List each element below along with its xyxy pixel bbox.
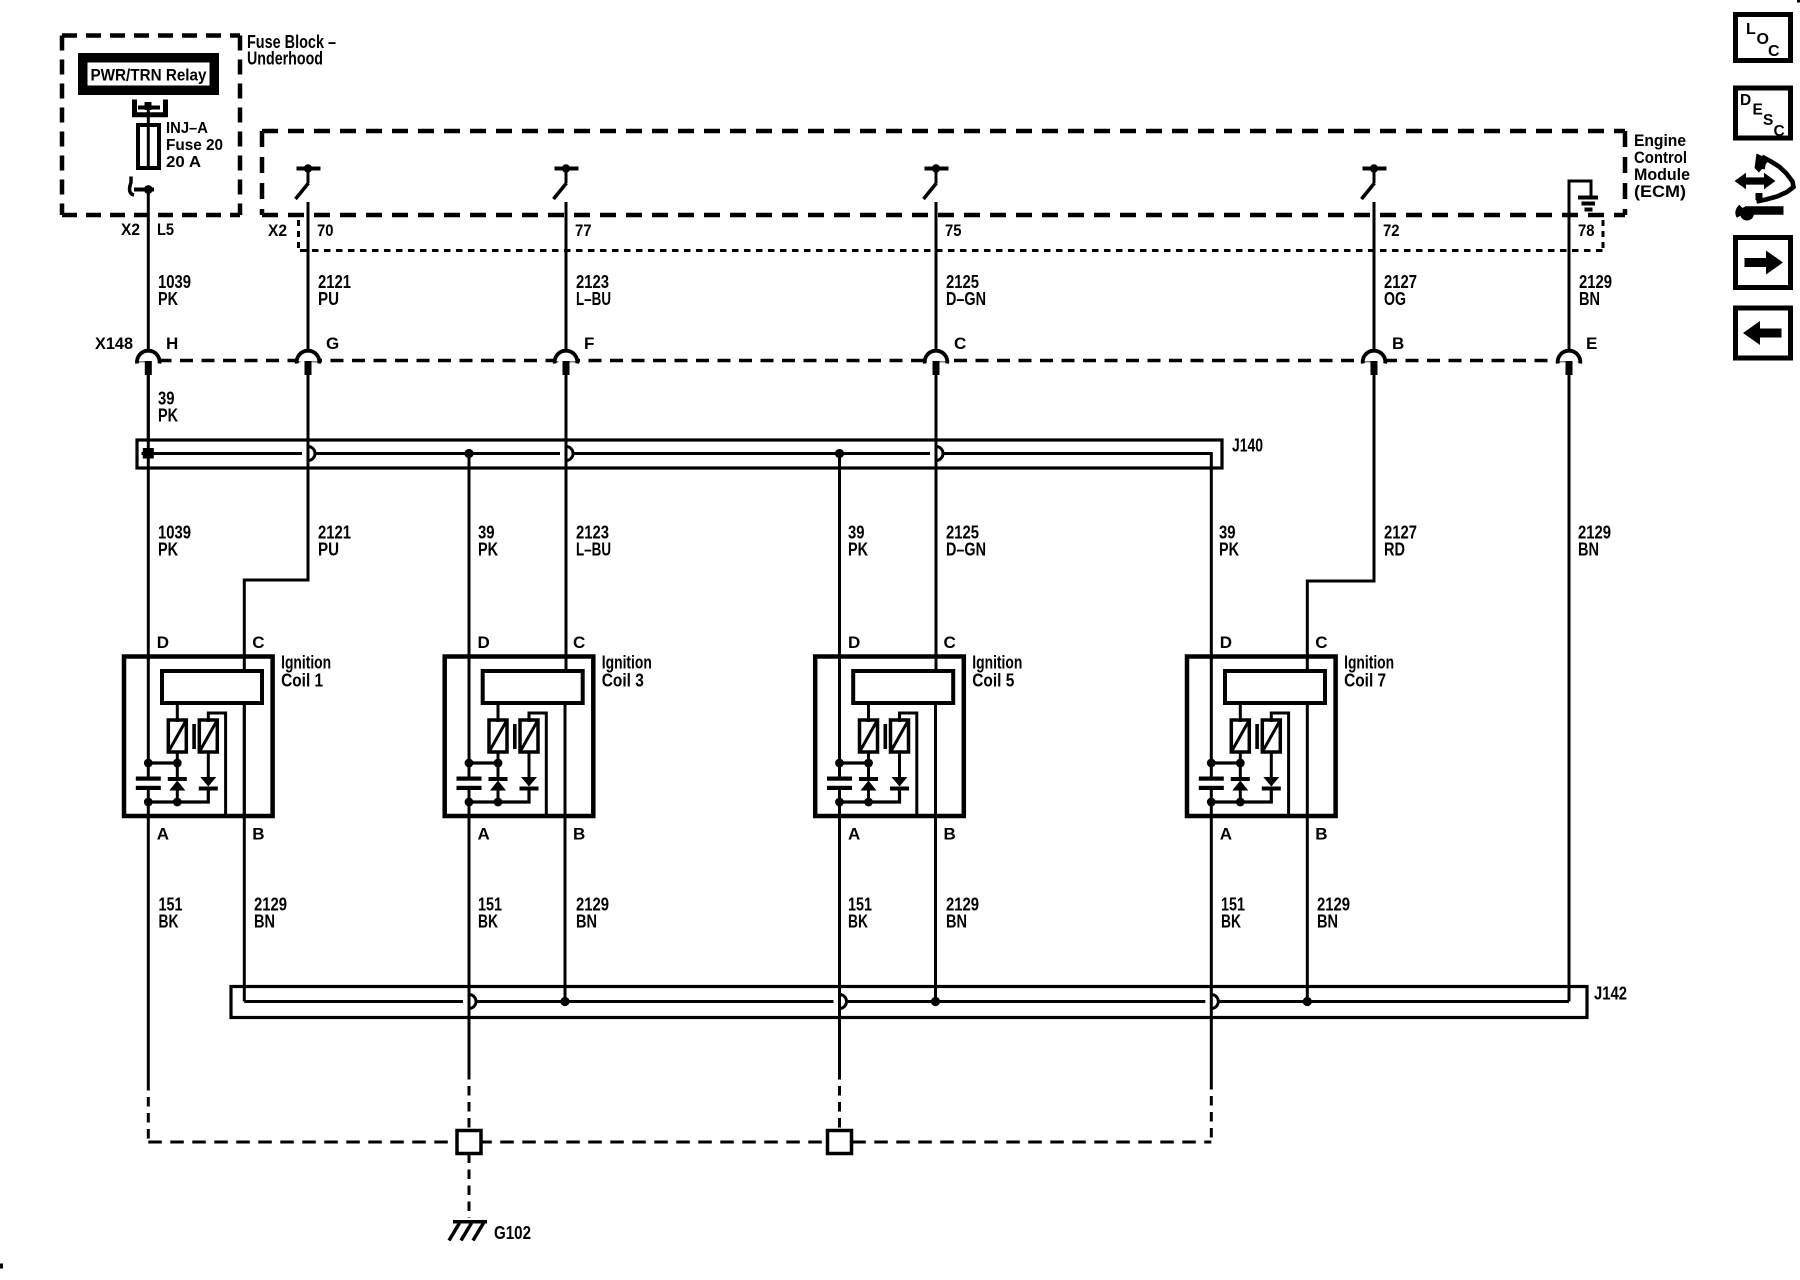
coil 3 pin labels (478, 633, 586, 844)
icon back arrow box (1736, 308, 1791, 358)
ECM dashed box (262, 131, 1625, 215)
svg-text:B: B (944, 825, 956, 844)
svg-text:D: D (157, 633, 169, 652)
page corner mark top-right (1797, 0, 1800, 3)
J142 junction dot coil5 BN (931, 997, 940, 1006)
ignition coil 1 (124, 656, 273, 818)
coil 5 pin labels (848, 633, 956, 844)
ECM connector X2 dotted boundary (299, 220, 1604, 251)
svg-text:78: 78 (1578, 221, 1595, 240)
wire relay to fuse (147, 108, 150, 127)
svg-text:D: D (1740, 92, 1751, 109)
wire 2129 BN coil1 B (243, 703, 246, 1002)
wire label 2125 D-GN (mid) (946, 523, 986, 560)
svg-text:PK: PK (1219, 540, 1239, 560)
wire label 2123 L-BU (top) (576, 272, 611, 309)
svg-text:A: A (157, 825, 169, 844)
connector X148 pin B (1363, 334, 1405, 375)
svg-text:C: C (954, 334, 966, 353)
svg-text:BN: BN (946, 912, 967, 932)
svg-text:20 A: 20 A (166, 154, 201, 171)
wire label 1039 PK (top) (158, 272, 191, 309)
svg-text:Coil 5: Coil 5 (972, 671, 1014, 691)
svg-text:E: E (1586, 334, 1597, 353)
svg-text:Fuse 20: Fuse 20 (166, 137, 223, 154)
wire label 39 PK coil3 (478, 523, 498, 560)
J142 label (1594, 984, 1627, 1004)
svg-text:E: E (1753, 102, 1763, 119)
splice pack J142 bus line (244, 995, 1569, 1009)
ignition coil 3 (445, 656, 594, 818)
svg-text:PU: PU (318, 289, 339, 309)
svg-text:L–BU: L–BU (576, 540, 611, 560)
svg-text:C: C (1315, 633, 1327, 652)
svg-text:B: B (573, 825, 585, 844)
wire label 2127 OG (top) (1384, 272, 1417, 309)
ECM driver output pin at x=936 (924, 164, 949, 352)
svg-text:BN: BN (1578, 540, 1599, 560)
connector X148 pin C (925, 334, 967, 375)
icon hand-drawn arrows (1735, 154, 1794, 221)
wire label 151 BK at x=478 (478, 895, 502, 932)
wire 2123 L-BU X148-F to coil3 C (565, 374, 568, 671)
ignition coil 5 (815, 656, 964, 818)
fuse INJ-A symbol (138, 125, 159, 170)
wire label 151 BK at x=848 (848, 895, 872, 932)
connector X148 dotted line (137, 359, 1578, 363)
svg-text:BK: BK (1221, 912, 1241, 932)
wire 1039 PK fuse to X148-H (147, 190, 150, 353)
wire label 1039 PK (mid) (158, 523, 191, 560)
connector X148 pin H (137, 334, 178, 375)
svg-text:72: 72 (1383, 221, 1400, 240)
wire 39 PK J140 to coil7 D (1210, 466, 1213, 660)
icon LOC box (1736, 15, 1791, 61)
svg-text:D–GN: D–GN (946, 540, 986, 560)
splice pack J140 outer box (137, 440, 1222, 468)
svg-text:C: C (573, 633, 585, 652)
svg-text:X2: X2 (268, 221, 287, 240)
J140 junction dot coil3 (464, 449, 473, 458)
wire label 39 PK coil7 (1219, 523, 1239, 560)
ground G102 symbol (449, 1222, 487, 1241)
svg-text:X2: X2 (121, 220, 140, 239)
svg-text:BK: BK (159, 912, 179, 932)
wire label 2129 BN at x=946 (946, 895, 979, 932)
wire label 151 BK at x=158.5 (159, 895, 183, 932)
svg-text:D: D (1220, 633, 1232, 652)
relay PWR/TRN box (78, 53, 219, 95)
wire 2129 BN X148-E to J142 (1568, 374, 1571, 1002)
svg-text:A: A (1220, 825, 1232, 844)
svg-text:G102: G102 (494, 1223, 531, 1243)
fuse block pin labels X2 L5 (121, 220, 174, 239)
svg-text:S: S (1763, 112, 1773, 129)
svg-text:Ignition: Ignition (972, 653, 1022, 673)
J142 junction dot coil3 BN (560, 997, 569, 1006)
dashed wire to G102 ground (468, 1154, 471, 1219)
svg-text:PK: PK (158, 289, 178, 309)
dashed ground bus G102 (148, 1141, 1211, 1144)
svg-text:B: B (252, 825, 264, 844)
icon forward arrow box (1736, 238, 1791, 288)
svg-text:X148: X148 (95, 334, 133, 353)
svg-text:J142: J142 (1594, 984, 1627, 1004)
ECM driver output pin at x=1374 (1362, 164, 1387, 352)
svg-text:D: D (478, 633, 490, 652)
coil 3 name label (602, 653, 652, 691)
wire label 151 BK at x=1221 (1221, 895, 1245, 932)
svg-text:70: 70 (317, 221, 334, 240)
svg-text:L–BU: L–BU (576, 289, 611, 309)
ECM driver output pin at x=566 (554, 164, 579, 352)
dashed wire coil7 BK down (1210, 1080, 1213, 1142)
splice square coil5 (828, 1131, 852, 1154)
dashed wire coil1 BK down (147, 1081, 150, 1142)
svg-text:C: C (944, 633, 956, 652)
wire 39 PK into J140 (147, 374, 150, 440)
connector X148 pin F (555, 334, 595, 375)
fuse block - underhood dashed box (62, 36, 240, 216)
svg-text:C: C (1774, 123, 1785, 140)
svg-text:PK: PK (848, 540, 868, 560)
svg-text:Ignition: Ignition (281, 653, 331, 673)
svg-text:BN: BN (254, 912, 275, 932)
J140 junction terminal (39 PK in) (143, 448, 154, 459)
J142 junction dot coil7 BN (1303, 997, 1312, 1006)
svg-text:Underhood: Underhood (247, 49, 323, 69)
wire 39 PK J140 to coil3 D (468, 454, 471, 661)
wire 39 PK J140 to coil5 D (838, 454, 841, 661)
svg-text:B: B (1392, 334, 1404, 353)
splice pack J140 bus line (142, 447, 1212, 469)
wire label 2125 D-GN (top) (946, 272, 986, 309)
svg-text:RD: RD (1384, 540, 1405, 560)
coil 7 name label (1344, 653, 1394, 691)
wire label 2129 BN (top) (1579, 272, 1612, 309)
ECM label (1634, 131, 1690, 201)
ground G102 label (494, 1223, 531, 1243)
wire 151 BK coil5 A (838, 816, 841, 1070)
wire 151 BK coil7 A (1210, 816, 1213, 1080)
wire 151 BK coil3 A (468, 816, 471, 1070)
relay output terminal bracket (135, 100, 166, 115)
svg-text:Coil 3: Coil 3 (602, 671, 644, 691)
svg-text:L: L (1746, 21, 1756, 38)
svg-text:PK: PK (158, 406, 178, 426)
wire label 2129 BN at x=1317 (1317, 895, 1350, 932)
wire 1039 PK J140 to coil1 D (147, 374, 150, 660)
ECM internal ground at pin 78 (1569, 180, 1598, 353)
splice square coil3 (457, 1131, 481, 1154)
wire label 2127 RD (mid) (1384, 523, 1417, 560)
splice pack J142 outer box (231, 987, 1587, 1018)
dashed wire coil3 BK down (468, 1070, 471, 1131)
svg-text:D–GN: D–GN (946, 289, 986, 309)
fuse label (166, 120, 223, 171)
wire label 2123 L-BU (mid) (576, 523, 611, 560)
svg-text:J140: J140 (1232, 436, 1263, 456)
connector X148 label (95, 334, 133, 353)
wire label 2129 BN at x=576 (576, 895, 609, 932)
wire 2129 BN coil3 B (564, 816, 567, 1002)
wire 2127 X148-B to coil7 jog (1307, 374, 1374, 671)
svg-text:BN: BN (1579, 289, 1600, 309)
icon DESC box (1736, 88, 1791, 140)
svg-text:BK: BK (848, 912, 868, 932)
svg-text:OG: OG (1384, 289, 1406, 309)
svg-text:Coil 7: Coil 7 (1344, 671, 1386, 691)
coil 5 name label (972, 653, 1022, 691)
svg-text:PU: PU (318, 540, 339, 560)
svg-text:Coil 1: Coil 1 (281, 671, 323, 691)
ECM driver output pin at x=308 (296, 164, 321, 352)
J140 junction dot coil5 (835, 449, 844, 458)
ECM connector X2 row labels (268, 221, 1595, 240)
svg-text:BN: BN (576, 912, 597, 932)
coil 1 pin labels (157, 633, 265, 844)
wire label 2121 PU (mid) (318, 523, 351, 560)
connector X148 pin G (297, 334, 340, 375)
wire 2121 PU X148-G to coil1 jog (244, 374, 308, 671)
wire label 39 PK (158, 389, 178, 426)
svg-text:C: C (252, 633, 264, 652)
svg-text:(ECM): (ECM) (1634, 182, 1686, 201)
svg-text:Ignition: Ignition (1344, 653, 1394, 673)
svg-text:F: F (584, 334, 594, 353)
svg-text:Ignition: Ignition (602, 653, 652, 673)
svg-text:H: H (166, 334, 178, 353)
svg-text:A: A (478, 825, 490, 844)
coil 7 pin labels (1220, 633, 1328, 844)
wire label 2129 BN at x=254 (254, 895, 287, 932)
svg-text:75: 75 (945, 221, 962, 240)
page edge mark bottom-left (0, 1264, 3, 1269)
svg-text:BK: BK (478, 912, 498, 932)
svg-text:PK: PK (158, 540, 178, 560)
svg-text:INJ–A: INJ–A (166, 120, 208, 137)
fuse block label (247, 32, 336, 69)
wire 151 BK coil1 A (147, 816, 150, 1081)
wire label 2129 BN (mid) (1578, 523, 1611, 560)
svg-text:B: B (1315, 825, 1327, 844)
svg-text:L5: L5 (157, 220, 174, 239)
dashed wire coil5 BK down (838, 1070, 841, 1131)
wire 2125 D-GN X148-C to coil5 C (935, 374, 938, 671)
svg-text:PWR/TRN Relay: PWR/TRN Relay (91, 67, 208, 85)
svg-text:A: A (848, 825, 860, 844)
relay contact symbol (130, 177, 154, 196)
connector X148 pin E (1558, 334, 1598, 375)
wire label 2121 PU (top) (318, 272, 351, 309)
wire 2129 BN coil7 B (1306, 816, 1309, 1002)
J140 label (1232, 436, 1263, 456)
svg-text:BN: BN (1317, 912, 1338, 932)
svg-text:C: C (1768, 43, 1780, 60)
ignition coil 7 (1187, 656, 1336, 818)
svg-text:77: 77 (575, 221, 592, 240)
wire 2129 BN coil5 B (934, 816, 937, 1002)
svg-text:PK: PK (478, 540, 498, 560)
svg-text:D: D (848, 633, 860, 652)
svg-text:G: G (326, 334, 339, 353)
wire label 39 PK coil5 (848, 523, 868, 560)
coil 1 name label (281, 653, 331, 691)
